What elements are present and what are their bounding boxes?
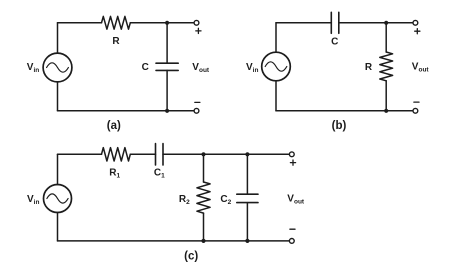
minus sign (b) xyxy=(414,101,419,103)
svg-text:R: R xyxy=(112,36,120,47)
svg-text:C: C xyxy=(142,62,149,73)
node dot (c) bottom junction C2 xyxy=(245,239,249,243)
wire (a) bottom wire xyxy=(58,110,195,112)
wire (b) left rail bottom xyxy=(275,81,277,111)
wire (c) top segment 2 xyxy=(130,153,155,155)
terminal + (b) xyxy=(413,20,418,25)
terminal + (c) xyxy=(289,152,294,157)
terminal - (a) xyxy=(194,108,199,113)
wire (a) capacitor lower lead xyxy=(166,70,168,110)
node dot (a) bottom junction xyxy=(165,109,169,113)
svg-text:(c): (c) xyxy=(184,251,198,263)
wire (b) resistor upper lead xyxy=(385,23,387,52)
resistor R2 (c) xyxy=(197,182,210,213)
wire (c) R2 lower lead xyxy=(203,213,205,241)
plus sign (b) xyxy=(415,29,420,34)
voltage source Vin (a) xyxy=(43,53,72,82)
capacitor C (a) xyxy=(156,63,178,70)
wire (b) top right segment xyxy=(339,22,413,24)
resistor R (b) xyxy=(380,52,393,81)
terminal + (a) xyxy=(194,20,199,25)
wire (c) bottom wire xyxy=(58,240,290,242)
svg-text:(a): (a) xyxy=(107,120,121,132)
resistor R (a) xyxy=(102,16,131,29)
voltage source Vin (b) xyxy=(262,52,291,81)
svg-text:C: C xyxy=(331,36,338,47)
wire (c) R2 upper lead xyxy=(203,154,205,182)
wire (c) top segment 3 xyxy=(163,153,289,155)
wire (a) left rail top xyxy=(57,23,59,53)
wire (b) left rail top xyxy=(275,23,277,52)
wire (a) top left segment xyxy=(58,22,102,24)
sine glyph inside source (c) xyxy=(47,194,68,203)
svg-text:R: R xyxy=(365,62,373,73)
capacitor C2 (c) xyxy=(237,194,258,202)
resistor R1 (c) xyxy=(102,148,131,161)
node dot (c) bottom junction R2 xyxy=(201,239,205,243)
wire (b) resistor lower lead xyxy=(385,81,387,111)
terminal - (b) xyxy=(413,108,418,113)
wire (a) capacitor upper lead xyxy=(166,23,168,63)
wire (c) C2 lower lead xyxy=(246,203,248,241)
capacitor C (b) xyxy=(331,12,339,33)
plus sign (a) xyxy=(196,28,201,33)
wire (a) top right segment xyxy=(130,22,194,24)
svg-text:(b): (b) xyxy=(332,120,347,132)
wire (c) top segment 1 xyxy=(58,153,102,155)
node dot (c) top junction R2 xyxy=(201,152,205,156)
wire (a) left rail bottom xyxy=(57,82,59,111)
wire (c) left rail top xyxy=(57,154,59,184)
wire (b) bottom wire xyxy=(276,110,413,112)
terminal - (c) xyxy=(289,239,294,244)
capacitor C1 (c) xyxy=(156,144,164,165)
plus sign (c) xyxy=(290,160,295,165)
wire (c) left rail bottom xyxy=(57,213,59,241)
minus sign (c) xyxy=(290,228,295,230)
node dot (b) top junction xyxy=(384,21,388,25)
node dot (c) top junction C2 xyxy=(245,152,249,156)
voltage source Vin (c) xyxy=(44,185,72,213)
wire (b) top left segment xyxy=(276,22,331,24)
node dot (b) bottom junction xyxy=(384,109,388,113)
wire (c) C2 upper lead xyxy=(246,154,248,194)
minus sign (a) xyxy=(195,101,200,103)
sine glyph inside source (a) xyxy=(47,63,69,72)
node dot (a) top junction xyxy=(165,21,169,25)
sine glyph inside source (b) xyxy=(265,62,287,71)
